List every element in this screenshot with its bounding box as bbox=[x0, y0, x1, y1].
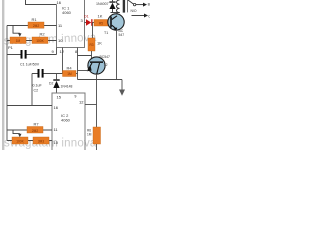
svg-text:1M: 1M bbox=[67, 72, 72, 76]
diode D1 red bbox=[84, 14, 94, 25]
svg-text:1K: 1K bbox=[98, 14, 103, 19]
wire T1 collector top row bbox=[111, 12, 120, 14]
IC U1 4060 box bbox=[57, 0, 85, 48]
svg-text:100K: 100K bbox=[36, 39, 44, 43]
svg-text:547: 547 bbox=[119, 33, 125, 37]
svg-text:100K: 100K bbox=[16, 140, 24, 144]
resistor R6 1M vertical bbox=[87, 127, 101, 144]
svg-text:10: 10 bbox=[54, 140, 59, 145]
diode D3 1N4007 bbox=[96, 0, 116, 13]
svg-text:N/O: N/O bbox=[131, 9, 137, 13]
wire P1 R2 row bbox=[7, 40, 57, 42]
wire pin8 drop bbox=[77, 48, 79, 80]
wire wiper arrow P1 bbox=[13, 26, 22, 37]
svg-text:P1: P1 bbox=[8, 45, 14, 50]
svg-text:T2: T2 bbox=[104, 63, 108, 67]
transistor T1 BC547 bbox=[104, 13, 124, 38]
svg-text:3M3: 3M3 bbox=[38, 140, 44, 144]
wire R7 row bbox=[7, 129, 52, 131]
relay terminal arrow 1 bbox=[136, 3, 151, 7]
wire vertical from rail to R6 bbox=[96, 80, 98, 128]
svg-text:2M2: 2M2 bbox=[33, 24, 39, 28]
resistor R8 3M3 bbox=[33, 137, 49, 144]
svg-text:4060: 4060 bbox=[61, 118, 71, 123]
capacitor C1 bbox=[21, 50, 27, 59]
wire C1 row bbox=[7, 48, 57, 55]
relay contact pole bbox=[128, 0, 133, 4]
svg-text:11: 11 bbox=[58, 23, 63, 28]
wire wiper arrow P2 bbox=[13, 130, 22, 137]
svg-text:R1: R1 bbox=[32, 17, 38, 22]
svg-text:R5: R5 bbox=[99, 22, 103, 26]
IC U2 4060 box bbox=[52, 93, 85, 150]
svg-text:8: 8 bbox=[75, 50, 77, 54]
wire R1 row bbox=[7, 25, 57, 27]
relay core line 2 bbox=[126, 0, 128, 12]
svg-text:1N4148: 1N4148 bbox=[61, 84, 73, 88]
svg-text:10: 10 bbox=[58, 38, 63, 43]
svg-text:12: 12 bbox=[79, 99, 84, 104]
resistor R3 1K vertical bbox=[88, 23, 102, 52]
wire R6 bottom bbox=[96, 144, 98, 150]
wire ground rail bbox=[78, 79, 123, 81]
ground arrow bbox=[119, 80, 125, 96]
wire T1 emitter drop bbox=[116, 30, 118, 80]
svg-text:R7: R7 bbox=[34, 121, 40, 126]
wire R3 bottom to pin8 line and T2 base bbox=[78, 51, 92, 62]
svg-text:BC547: BC547 bbox=[100, 55, 110, 59]
wire T2 bottom lead bbox=[96, 74, 98, 80]
svg-text:15: 15 bbox=[57, 95, 62, 100]
resistor R5 1K bbox=[94, 14, 108, 26]
left border bar bbox=[2, 0, 4, 150]
svg-text:R4: R4 bbox=[67, 66, 73, 71]
relay contact circle 1 bbox=[133, 3, 135, 5]
wire pin12 drop bbox=[62, 48, 64, 74]
resistor R4 1M bbox=[63, 66, 78, 77]
svg-text:0.1uF: 0.1uF bbox=[33, 84, 43, 88]
resistor R7 2M2 bbox=[27, 121, 43, 133]
capacitor C2 0.1uF bbox=[38, 69, 44, 78]
svg-text:3: 3 bbox=[81, 18, 84, 23]
svg-text:1M: 1M bbox=[16, 39, 21, 43]
wire supply stub top-left bbox=[26, 0, 57, 5]
relay core bar bbox=[123, 0, 125, 13]
svg-text:16: 16 bbox=[57, 0, 62, 5]
node bus left vertical bbox=[6, 26, 8, 141]
svg-text:R3: R3 bbox=[89, 43, 93, 47]
potentiometer P1 1M bbox=[8, 37, 26, 50]
potentiometer P2 100K bbox=[12, 137, 28, 144]
svg-text:4060: 4060 bbox=[62, 10, 72, 15]
svg-text:C2: C2 bbox=[34, 89, 39, 93]
svg-text:1M: 1M bbox=[87, 133, 92, 137]
svg-text:R2: R2 bbox=[40, 32, 46, 37]
resistor R2 100K bbox=[32, 32, 48, 44]
wire pin12 IC2 bbox=[85, 104, 97, 106]
svg-text:9: 9 bbox=[75, 95, 77, 99]
svg-text:T1: T1 bbox=[104, 31, 108, 35]
relay RL1 coil bbox=[117, 0, 120, 13]
svg-text:11: 11 bbox=[54, 127, 59, 132]
svg-text:C: C bbox=[148, 14, 150, 18]
wire C2 row bbox=[32, 74, 64, 106]
wire P2 row bbox=[7, 140, 52, 142]
resistor R1 2M2 bbox=[28, 17, 44, 28]
diode D2 1N4148 bbox=[49, 74, 72, 94]
svg-text:C1 1uF/50V: C1 1uF/50V bbox=[20, 63, 40, 67]
svg-text:B: B bbox=[148, 3, 150, 7]
relay terminal arrow 2 bbox=[132, 14, 152, 19]
svg-text:9: 9 bbox=[52, 49, 55, 54]
svg-text:1K: 1K bbox=[97, 40, 102, 45]
svg-text:D1: D1 bbox=[84, 14, 89, 18]
wire T2 emitter to pin8 line bbox=[78, 70, 89, 72]
svg-text:16: 16 bbox=[54, 105, 59, 110]
svg-text:2M2: 2M2 bbox=[32, 129, 38, 133]
svg-text:D2: D2 bbox=[49, 81, 53, 85]
svg-text:1N4007: 1N4007 bbox=[96, 2, 109, 6]
transistor T2 BC547 bbox=[87, 55, 110, 74]
wire pin16 IC2 row bbox=[7, 105, 52, 107]
